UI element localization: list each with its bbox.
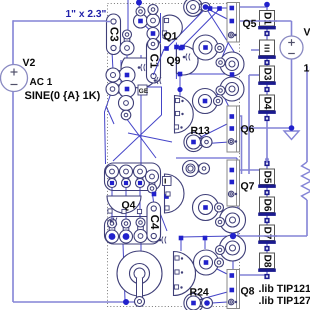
pad D1-D2 [264,31,269,36]
pad antiring R24 [184,293,203,310]
svg-text:D1: D1 [262,12,273,25]
capacitor C1 [147,39,161,83]
pad header 1c [137,172,143,184]
transistor T4 [175,96,194,134]
pin dot T7b [181,271,183,273]
pad dogbone E [113,71,127,80]
node D5 stub [265,158,269,162]
svg-text:Q1: Q1 [164,31,178,43]
wire D1 to V1 top [291,21,293,37]
pin dot Q5 [234,34,236,36]
svg-text:AC 1: AC 1 [30,77,53,88]
trace pad stub b [180,238,182,251]
wire resistor bottom segment [306,200,308,236]
pad via h [217,6,222,11]
trace pad D link [213,93,221,97]
pin T7-8 [175,270,179,274]
node pot junction [123,299,129,305]
trace pad to Q5 pin2 [208,9,231,21]
pin dot T4b [181,113,183,115]
pin glyph d [110,220,113,223]
trace R13 to Q6 [197,123,229,139]
trace pot vertical [123,244,125,300]
trace from top via [139,3,140,17]
transistor T7 [174,252,196,296]
transistor Q8 footprint [227,270,240,309]
pin dot Q8 [235,301,237,303]
board outline 1in x 2.3in dotted [108,4,240,307]
transistor Q1 [163,15,182,40]
transistor T6 [165,174,185,213]
svg-text:1" x 2.3": 1" x 2.3" [66,9,107,20]
trace R24 to Q8 pin3 [212,302,227,303]
svg-text:D6: D6 [262,199,273,212]
pad group outline upper header [105,163,161,191]
voltage source V2 [1,65,28,92]
resistor R13 pads [194,139,207,146]
trace C1 pad diagonal [153,49,164,75]
wire over D7 [258,235,277,237]
wire Q5 pin1 to D column top [239,6,267,8]
pad D6-D7 [264,218,269,223]
svg-text:R24: R24 [190,287,209,299]
wire Q5 pin2 to D1 [239,20,292,22]
svg-text:GE: GE [139,88,149,95]
pin Q4-3 [137,209,141,213]
pad D5 top [264,161,269,166]
pad via e [179,236,184,241]
pin glyph b [183,56,186,59]
trace cross diagonal A [113,115,162,161]
wire D2 stub [251,49,259,51]
resistor pads mid [191,165,205,172]
pin glyph a [138,66,141,69]
trace pad stub [204,238,206,249]
pad antiring R13 [184,132,203,151]
voltage source V1 [280,36,303,59]
pad via d [164,194,169,199]
pad D3-D4 [264,87,269,92]
svg-text:D4: D4 [262,97,273,110]
pad via f [203,236,208,241]
pad via a [174,45,179,50]
trace cross diagonal B [128,133,172,142]
wire Q6 pin2 to ground node [233,127,292,129]
svg-text:Q7: Q7 [241,181,255,193]
pin glyph e [154,79,157,82]
pin dot Q6 [235,140,237,142]
pad via g [230,72,235,77]
trace edge vertical [237,192,239,256]
transistor Q9 [176,46,198,75]
capacitor C3 [107,14,121,55]
trace edge diagonal [105,93,112,164]
diode D5 [260,169,275,185]
trace pad to Q1 pin [167,8,206,48]
pad D7-D8 [264,246,269,251]
wire resistor to D7 [233,235,307,237]
trace pad down [137,62,139,84]
node ground junction [289,125,295,131]
pad D2-D3 [264,60,269,65]
svg-text:V2: V2 [23,57,36,69]
diode D6 [260,197,275,213]
pad dogbone F [113,85,128,93]
pad header 2a [109,224,115,237]
pad header 2b [123,224,129,237]
wire Q6 pin1 branch [237,116,242,174]
wire V1 net down right edge [306,66,308,162]
pin T6-2 [165,206,169,210]
node board top via [136,0,142,6]
svg-text:D3: D3 [262,68,273,81]
pad edge E1 [220,217,233,219]
transistor Q5 footprint [227,3,240,43]
trace Q9 chord line [175,43,177,80]
trace Q6 pin1 to pad C [222,93,233,115]
trace mid vertical long [140,55,142,165]
pad header 2c [138,223,144,237]
pin dot T4c [180,126,182,128]
pin label GE [138,85,147,95]
svg-text:Q8: Q8 [241,286,255,298]
wire D3 branch vertical [248,75,250,174]
trace header link c [139,187,141,220]
diode D3 [260,66,275,82]
pad ring D [205,97,218,99]
trace dogbone down [126,54,128,68]
node Q9 junction [177,87,182,92]
pad via l [178,72,183,77]
trace dogbone diagonal [141,22,152,32]
wire D3 branch horizontal [249,74,259,76]
svg-text:Q6: Q6 [241,124,255,136]
wire from V2 top to board [13,20,112,22]
pin T7-2 [174,285,178,289]
pad via j [164,46,169,51]
pin Q4-1 [108,209,112,213]
trace to pot top [140,243,142,252]
svg-text:Q9: Q9 [167,55,181,67]
pin T6-8 [166,192,170,196]
svg-text:V1: V1 [304,27,311,39]
trace left vertical [120,60,122,96]
pin T6-1 [167,178,171,182]
trace via to Q9 pin [182,9,220,48]
wire Q7 pin1 to D5 [237,169,259,171]
trace C4 right diag [160,213,167,231]
diode D4 [260,95,275,111]
trace top edge diag [206,8,238,58]
transistor Q7 footprint [227,160,240,206]
trace Q7-Q8 vertical [232,197,234,272]
svg-text:.lib TIP127: .lib TIP127 [259,295,311,307]
diode D1 [260,11,275,27]
pin glyph c [159,239,162,242]
svg-text:D8: D8 [262,255,273,268]
pad dogbone G [123,103,129,115]
pad group outline lower header [105,217,161,245]
svg-text:C3: C3 [108,27,120,42]
wire D-column vertical net [266,5,268,277]
trace R13 to Q6 pin3 [200,142,229,144]
trace header link a [111,187,113,221]
pad dogbone B [138,12,144,22]
pad via c [152,192,157,197]
trace Q9 vertical [179,50,181,89]
capacitor C4 [147,202,161,242]
pad ring A [206,44,220,47]
pad header 1b [123,172,129,184]
trace corner diag [106,106,114,124]
resistor R1 zigzag [302,162,312,200]
pin Q4-2 [122,209,126,213]
pad edge C [221,86,233,88]
svg-text:D5: D5 [262,171,273,184]
diode D2 [260,40,275,56]
pad dogbone D [150,34,157,45]
pad edge E2 [220,245,233,247]
resistor R24 pads [194,300,208,307]
pad via k [179,46,184,51]
svg-text:C4: C4 [148,215,160,230]
trace T4 pin link [179,90,181,110]
trace to junction [181,236,233,237]
pin Q1-2 [162,31,166,35]
svg-text:R13: R13 [191,125,210,137]
pad D4 bottom [264,116,269,121]
pin T4-8 [175,111,179,115]
pin dot T7a [181,257,183,259]
pad D5-D6 [264,190,269,195]
svg-text:.lib TIP121: .lib TIP121 [259,283,311,295]
pin T7-3 [175,256,179,260]
trace Q9 chord vertical [147,87,162,115]
svg-text:Q4: Q4 [122,200,136,212]
trace pad row to Q5 pin1 [210,7,227,9]
trace to C4 top [152,190,154,206]
pad edge B [221,60,233,62]
ground [284,131,299,140]
wire over D1 [258,20,277,22]
pin Q1-1 [164,18,168,22]
svg-text:SINE(0 {A} 1K): SINE(0 {A} 1K) [25,90,101,102]
diode D7 [260,225,275,241]
pad via b [180,45,185,50]
wire V1 bottom to ground node [291,59,293,132]
trace top-left vertical [127,0,129,34]
trace pad to Q8 pin1 [211,266,231,276]
pin dot Q7 [235,193,237,195]
pad header 1d [149,177,155,189]
pad header 1a [109,172,115,184]
pad dogbone top [193,4,206,10]
wire into C3 pad [106,21,110,23]
trace header link b [125,187,127,221]
wire Q8 pin1 to D8 [239,274,267,276]
trace down to Q7 [236,158,238,170]
trace mid horizontal [183,73,230,75]
wire bottom to board pad [13,301,135,303]
svg-text:D7: D7 [262,227,273,240]
transistor T3 [121,58,159,88]
wire D5 stub [266,160,268,164]
trace horizontal to Q7 [176,157,237,159]
pin box 1 [163,177,172,186]
wire V2 left vertical [12,20,14,302]
pad dogbone C [150,10,156,21]
trace Q5 pin3 to pad B [221,36,231,60]
diode D8 [260,253,275,269]
pad dogbone A [124,35,130,49]
pad antiring [184,0,203,16]
svg-text:15: 15 [304,63,311,75]
pin T4-3 [175,98,179,102]
trace Q1 chord line [160,13,162,43]
svg-text:Q5: Q5 [243,18,257,30]
pad D8 bottom [264,274,269,279]
transistor Q6 footprint [227,106,240,152]
pin T4-2 [174,125,178,129]
node D7 junction [230,233,236,239]
node D column top [264,2,270,8]
svg-text:C1: C1 [148,54,160,69]
potentiometer [117,251,162,296]
pad via i [208,6,213,11]
transistor Q4 [107,196,141,213]
trace cross diagonal C [126,118,156,158]
pin dot T4a [181,100,183,102]
pin dot T7c [180,286,182,288]
pad ring N [206,259,219,261]
trace C3 to pad [112,52,113,70]
trace R24 to Q8 pin2 [198,291,231,300]
pad ring M [206,204,220,206]
